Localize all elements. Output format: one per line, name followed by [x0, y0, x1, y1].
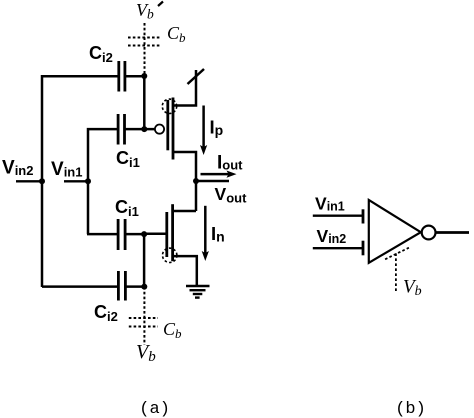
wire node A down to PMOS gate node [143, 76, 146, 129]
gate bar Vin1 (b) [362, 209, 365, 223]
node NMOS gate junction [141, 231, 147, 237]
wire output (b) [436, 231, 469, 234]
wire output node to NMOS drain [195, 181, 198, 211]
node Vin1 junction [85, 178, 91, 184]
capacitor Cb (bottom, dashed) [129, 318, 158, 327]
transistor M1 PMOS channel bar [172, 98, 175, 160]
transistor M2 NMOS channel bar [171, 204, 174, 261]
wire Ci2 top to node A [125, 75, 145, 78]
dashed bias edge (b) [385, 248, 409, 260]
node PMOS gate junction [141, 126, 147, 132]
svg-text:Vb: Vb [136, 0, 154, 22]
wire dotted Vb (b) [395, 253, 397, 291]
inverter triangle U1 [369, 200, 421, 263]
output bubble U1 [422, 226, 436, 240]
svg-text:Vb: Vb [403, 277, 422, 300]
node Vin2 junction [39, 178, 45, 184]
svg-text:Cb: Cb [167, 23, 186, 45]
svg-text:Vb: Vb [136, 341, 156, 365]
svg-text:(b): (b) [395, 400, 426, 418]
wire Vin1 rail to Ci1 lower [87, 233, 118, 236]
node A (top Ci2 junction) [141, 73, 147, 79]
svg-text:Vin1: Vin1 [315, 194, 345, 214]
svg-text:Ip: Ip [210, 117, 224, 139]
wire Ci1 upper to PMOS gate bubble [125, 128, 155, 131]
transistor M1 PMOS source wire [174, 70, 196, 106]
capacitor Ci2 (top) [119, 61, 125, 92]
svg-text:In: In [211, 223, 225, 245]
gate bar Vin2 (b) [362, 241, 365, 256]
transistor M1 PMOS gate bar [166, 100, 169, 150]
transistor M2 NMOS source wire [174, 256, 197, 285]
supply slash [188, 69, 205, 84]
svg-text:Vout: Vout [215, 184, 248, 206]
svg-text:Ci1: Ci1 [116, 148, 140, 170]
wire Vout [196, 180, 229, 183]
dashed circle (PMOS bulk mark) [162, 99, 176, 113]
wire NMOS gate [144, 233, 167, 236]
dashed circle (NMOS bulk mark) [163, 248, 177, 262]
wire Ci1 lower to NMOS gate node [125, 233, 144, 236]
capacitor Ci2 (lower) [118, 271, 125, 301]
svg-text:Ci2: Ci2 [89, 43, 113, 65]
wire Ci2 lower to node B [125, 285, 144, 288]
current arrow Iout [201, 171, 237, 178]
capacitor Ci1 (lower) [118, 219, 125, 250]
transistor M1 PMOS drain wire [174, 152, 196, 181]
wire dotted node B to Cb bottom [143, 287, 145, 345]
transistor M2 NMOS drain wire [174, 210, 196, 213]
output node [193, 178, 199, 184]
node B (lower Ci2 junction) [141, 284, 147, 290]
wire Vin2 stub [16, 180, 42, 182]
wire Vin1 stub [64, 180, 88, 182]
svg-text:Ci1: Ci1 [115, 197, 139, 219]
ground [186, 286, 210, 298]
svg-text:Vin2: Vin2 [2, 158, 33, 179]
wire Vin2 input (b) [313, 247, 363, 249]
svg-text:Iout: Iout [217, 153, 243, 174]
svg-text:Ci2: Ci2 [94, 302, 118, 324]
transistor M2 NMOS gate bar [165, 212, 168, 257]
svg-text:Cb: Cb [163, 319, 182, 341]
svg-text:Vin2: Vin2 [317, 226, 347, 246]
wire dotted Vb to top node [144, 23, 146, 74]
current arrow In [202, 206, 209, 261]
wire Vin2 rail to Ci2 lower [42, 285, 118, 288]
wire Vin1 rail to Ci1 upper [88, 129, 118, 234]
PMOS gate bubble [155, 125, 164, 134]
capacitor Cb (top, dashed) [128, 38, 160, 46]
capacitor Ci1 (upper) [118, 114, 124, 145]
wire Vin2 rail to Ci2 top [42, 76, 119, 287]
current arrow Ip [200, 106, 207, 156]
svg-text:Vin1: Vin1 [51, 159, 82, 180]
wire NMOS gate node down to node B [143, 234, 146, 287]
svg-text:(a): (a) [139, 400, 170, 418]
wire Vin1 input (b) [313, 214, 363, 216]
node Vb (top bias) [136, 0, 163, 22]
